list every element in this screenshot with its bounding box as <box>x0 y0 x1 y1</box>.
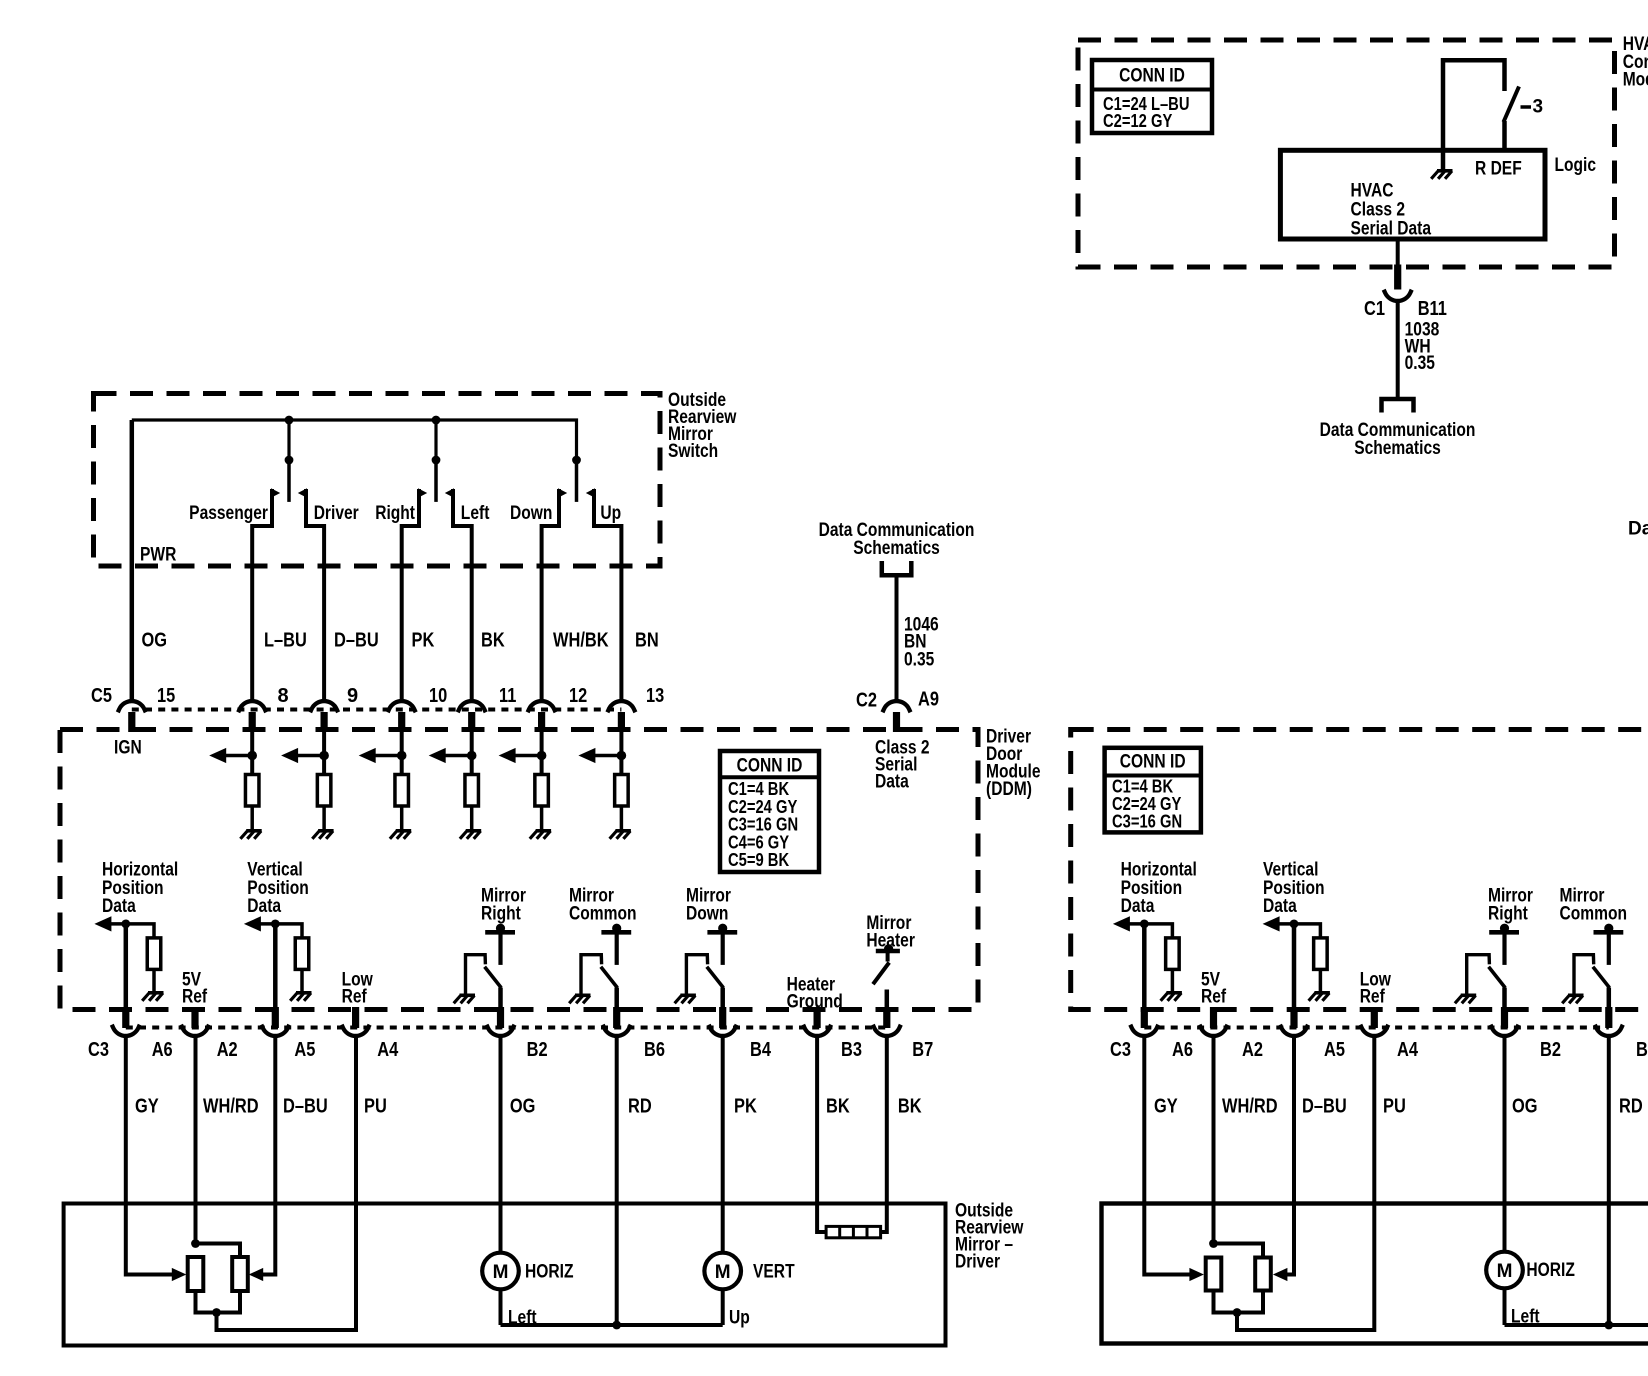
connector pin B2 cup (right) <box>1491 1025 1519 1036</box>
HVAC Control Module dashed box <box>1078 40 1615 267</box>
svg-text:CONN ID: CONN ID <box>737 756 803 777</box>
svg-text:B11: B11 <box>1418 298 1447 320</box>
connector pin A4 cup <box>342 1025 370 1036</box>
pull-down resistor leg at x=471.7 <box>470 731 474 775</box>
HVAC logic box <box>1280 150 1545 239</box>
svg-text:0.35: 0.35 <box>1405 353 1436 374</box>
svg-text:Data: Data <box>875 772 909 793</box>
wire VERT motor to common <box>721 1289 725 1325</box>
svg-text:C3: C3 <box>88 1039 109 1061</box>
wire HORIZ motor to common <box>499 1289 503 1325</box>
power bus wire <box>132 420 577 460</box>
connector pin B6 cup (right) <box>1595 1025 1623 1036</box>
connector pin A6 tick (right) <box>1141 1007 1148 1028</box>
svg-text:(DDM): (DDM) <box>986 779 1032 800</box>
svg-text:Ref: Ref <box>1360 987 1386 1008</box>
Horizontal Position Data branch (DDM) <box>109 922 125 926</box>
svg-text:Driver: Driver <box>955 1252 1000 1273</box>
svg-text:B2: B2 <box>527 1039 548 1061</box>
pot left element <box>188 1257 204 1291</box>
svg-text:R DEF: R DEF <box>1475 158 1522 179</box>
connector pin A6 cup <box>112 1025 140 1036</box>
svg-text:12: 12 <box>569 685 587 707</box>
svg-text:M: M <box>1497 1261 1513 1282</box>
motor M VERT <box>704 1253 741 1290</box>
svg-text:BN: BN <box>635 629 659 651</box>
svg-text:WH/RD: WH/RD <box>203 1095 259 1117</box>
connector pin 10 tick <box>398 712 405 732</box>
connector pin B2 tick <box>497 1007 504 1028</box>
svg-text:Right: Right <box>481 904 521 925</box>
junction dot pot top (right) <box>1209 1239 1218 1248</box>
svg-text:PU: PU <box>1383 1095 1406 1117</box>
junction dot pot bottom <box>212 1308 221 1317</box>
passenger door module dashed box <box>1071 730 1648 1010</box>
svg-text:HORIZ: HORIZ <box>1526 1260 1575 1281</box>
wire OG (IGN feed) <box>130 420 135 699</box>
wire PK B4 to VERT motor <box>721 1037 725 1253</box>
svg-text:Common: Common <box>1560 904 1628 925</box>
svg-text:A6: A6 <box>152 1039 173 1061</box>
connector pin 8 tick <box>249 712 256 732</box>
svg-text:A2: A2 <box>217 1039 238 1061</box>
svg-text:A4: A4 <box>1397 1039 1419 1061</box>
R DEF switch wiring (top bar and legs) <box>1443 60 1505 170</box>
svg-text:Heater: Heater <box>866 931 915 952</box>
svg-text:HORIZ: HORIZ <box>525 1262 574 1283</box>
svg-text:PK: PK <box>412 629 435 651</box>
Mirror Down switch (DDM) <box>707 930 737 935</box>
Outside Rearview Mirror Driver box <box>64 1204 946 1346</box>
svg-text:HVAC: HVAC <box>1351 181 1394 202</box>
connector pin A2 cup <box>181 1025 209 1036</box>
connector pin B4 cup <box>709 1025 737 1036</box>
junction dot bus 1 <box>285 416 294 425</box>
connector pin B3 cup <box>803 1025 831 1036</box>
common return wire (driver mirror) <box>501 1323 723 1327</box>
svg-text:A9: A9 <box>918 689 939 711</box>
svg-text:C5: C5 <box>91 685 112 707</box>
connector pin 11 cup <box>458 701 486 712</box>
connector pin 9 cup <box>310 701 338 712</box>
svg-text:11: 11 <box>499 685 516 707</box>
connector pin B6 tick (right) <box>1605 1007 1612 1028</box>
Horizontal Position Data branch (right) <box>1128 922 1144 926</box>
pull-down resistor leg at x=252.2 <box>250 731 254 775</box>
wire OG B2 to HORIZ motor <box>499 1037 503 1253</box>
R DEF switch lower post <box>1502 121 1507 151</box>
svg-text:Data: Data <box>1121 896 1155 917</box>
svg-text:15: 15 <box>157 685 175 707</box>
svg-text:B6: B6 <box>1636 1039 1648 1061</box>
svg-text:IGN: IGN <box>114 738 142 759</box>
wire HORIZ motor to common (right) <box>1503 1288 1507 1325</box>
common return wire (passenger mirror) <box>1505 1323 1648 1327</box>
wire WH/RD A2 to pot top <box>194 1037 198 1244</box>
svg-text:3: 3 <box>1533 97 1544 118</box>
connector C2/A9 cup <box>883 701 911 712</box>
wire BK B7 to heater element <box>880 1037 887 1232</box>
mirror heater element <box>826 1226 881 1237</box>
svg-text:A5: A5 <box>294 1039 315 1061</box>
dotted connector line (switch to DDM row) <box>132 708 622 712</box>
junction dot bus 2 <box>432 416 441 425</box>
svg-text:RD: RD <box>628 1095 652 1117</box>
svg-text:PK: PK <box>734 1095 757 1117</box>
svg-text:Schematics: Schematics <box>1354 438 1441 459</box>
wire BK B3 to heater element <box>817 1037 827 1232</box>
svg-text:A4: A4 <box>377 1039 399 1061</box>
svg-text:Data: Data <box>102 896 136 917</box>
svg-text:BK: BK <box>898 1095 922 1117</box>
svg-text:PU: PU <box>364 1095 387 1117</box>
wire PU A4 to pot bottom (right) <box>1237 1037 1374 1330</box>
connector pin A6 cup (right) <box>1130 1025 1158 1036</box>
connector pin A5 tick (right) <box>1290 1007 1297 1028</box>
svg-text:C1=4 BK: C1=4 BK <box>728 779 789 799</box>
svg-text:10: 10 <box>429 685 447 707</box>
pot left element (right) <box>1206 1258 1222 1291</box>
svg-text:Schematics: Schematics <box>853 538 940 559</box>
wire GY A6 to pot wiper <box>126 1037 173 1275</box>
connector pin A4 tick <box>352 1007 359 1028</box>
svg-text:D–BU: D–BU <box>283 1095 328 1117</box>
svg-text:Common: Common <box>569 904 637 925</box>
svg-text:Ref: Ref <box>1201 987 1227 1008</box>
pot bottom bar <box>196 1291 241 1313</box>
junction dot pot top <box>191 1239 200 1248</box>
pot wiper arrow left (right) <box>1189 1268 1204 1281</box>
svg-text:A5: A5 <box>1324 1039 1345 1061</box>
pot top bar <box>196 1244 241 1258</box>
connector pin A2 tick <box>191 1007 198 1028</box>
connector pin 9 tick <box>321 712 328 732</box>
connector pin 8 cup <box>238 701 266 712</box>
svg-text:Data: Data <box>1263 896 1297 917</box>
R DEF switch blade <box>1504 87 1520 123</box>
connector pin A6 tick <box>122 1007 129 1028</box>
svg-text:C5=9 BK: C5=9 BK <box>728 850 789 870</box>
connector pin A2 cup (right) <box>1200 1025 1228 1036</box>
connector pin 15 tick <box>128 712 135 732</box>
wire WH/RD A2 to pot top (right) <box>1212 1037 1216 1244</box>
Driver Door Module dashed box <box>60 730 978 1010</box>
svg-text:VERT: VERT <box>753 1262 795 1283</box>
pot top bar (right) <box>1214 1244 1264 1258</box>
wire D-BU A5 to pot wiper right <box>263 1037 276 1275</box>
switch Right/Left pair <box>434 460 438 502</box>
junction dot pot bottom (right) <box>1233 1308 1242 1317</box>
svg-text:Data: Data <box>1628 519 1648 540</box>
svg-text:Class 2: Class 2 <box>1351 200 1406 221</box>
connector pin B7 cup <box>873 1025 901 1036</box>
pull-down resistor leg at x=401.7 <box>400 731 404 775</box>
wire from logic box to C1 connector <box>1396 239 1400 270</box>
pull-down resistor leg at x=541.6 <box>540 731 544 775</box>
svg-text:Right: Right <box>375 503 415 524</box>
svg-text:OG: OG <box>142 629 168 651</box>
off-page bracket to Data Communication Schematics <box>1382 399 1414 413</box>
connector pin A4 cup (right) <box>1360 1025 1388 1036</box>
wire RD B6 to common (right) <box>1607 1037 1611 1325</box>
off-page bracket (middle) <box>882 561 912 575</box>
svg-text:Down: Down <box>686 904 728 925</box>
svg-text:Down: Down <box>510 503 552 524</box>
Vertical Position Data branch (DDM) <box>259 922 275 926</box>
Mirror Common switch (right) <box>1594 930 1624 935</box>
svg-text:Module: Module <box>1623 70 1648 91</box>
connector pin 12 cup <box>528 701 556 712</box>
svg-text:Ref: Ref <box>182 987 208 1008</box>
svg-text:0.35: 0.35 <box>904 649 935 670</box>
switch Passenger/Driver pair <box>287 460 291 502</box>
svg-text:C2=12 GY: C2=12 GY <box>1103 111 1172 131</box>
svg-text:OG: OG <box>510 1095 536 1117</box>
connector pin B3 tick <box>814 1007 821 1028</box>
svg-text:A6: A6 <box>1172 1039 1193 1061</box>
svg-text:Logic: Logic <box>1555 155 1597 176</box>
svg-text:BK: BK <box>826 1095 850 1117</box>
pull-down resistor leg at x=324.1 <box>322 731 326 775</box>
connector pin B6 tick <box>613 1007 620 1028</box>
CONN ID table (DDM) <box>720 751 819 872</box>
connector pin B7 tick <box>883 1007 890 1028</box>
junction dot pole 2 <box>432 456 441 465</box>
Mirror Common switch (DDM) <box>601 930 631 935</box>
motor M HORIZ (passenger) <box>1486 1252 1523 1289</box>
svg-text:Up: Up <box>600 503 621 524</box>
pot right element <box>232 1257 248 1291</box>
connector pin 13 cup <box>607 701 635 712</box>
junction dot pole 1 <box>285 456 294 465</box>
svg-text:B3: B3 <box>841 1039 862 1061</box>
svg-text:GY: GY <box>1154 1095 1178 1117</box>
pot bottom bar (right) <box>1214 1291 1264 1313</box>
Vertical Position Data branch (right) <box>1278 922 1294 926</box>
CONN ID table (HVAC C1=24 L-BU C2=12 GY) <box>1092 60 1212 133</box>
Outside Rearview Mirror passenger box <box>1102 1204 1648 1344</box>
svg-text:B7: B7 <box>912 1039 933 1061</box>
svg-text:L–BU: L–BU <box>264 629 307 651</box>
svg-text:GY: GY <box>135 1095 159 1117</box>
wire PU A4 to pot bottom <box>217 1037 357 1330</box>
connector pin A2 tick (right) <box>1210 1007 1217 1028</box>
connector pin B2 cup <box>487 1025 515 1036</box>
svg-text:C3: C3 <box>1110 1039 1131 1061</box>
svg-text:C2: C2 <box>856 690 877 712</box>
Mirror Right switch (DDM) <box>485 930 515 935</box>
wire GY A6 to pot wiper (right) <box>1144 1037 1190 1275</box>
connector pin B2 tick (right) <box>1501 1007 1508 1028</box>
svg-text:13: 13 <box>646 685 664 707</box>
wire OG B2 to HORIZ motor (right) <box>1503 1037 1507 1252</box>
svg-text:BK: BK <box>481 629 505 651</box>
pot right element (right) <box>1255 1258 1271 1291</box>
connector C2/A9 tick <box>893 712 900 732</box>
connector pin A4 tick (right) <box>1371 1007 1378 1028</box>
svg-text:Driver: Driver <box>314 503 359 524</box>
connector pin A5 cup (right) <box>1280 1025 1308 1036</box>
wire RD B6 to common <box>615 1037 619 1325</box>
pot wiper arrow left <box>172 1268 187 1281</box>
svg-text:Passenger: Passenger <box>189 503 268 524</box>
dotted connector line (right module bottom row) <box>1144 1026 1609 1030</box>
svg-text:CONN ID: CONN ID <box>1120 752 1186 773</box>
svg-text:PWR: PWR <box>140 545 177 566</box>
svg-text:Right: Right <box>1488 904 1528 925</box>
switch stub 1 <box>287 420 290 460</box>
connector pin B6 cup <box>603 1025 631 1036</box>
switch Down/Up pair <box>575 460 579 502</box>
svg-text:B6: B6 <box>644 1039 665 1061</box>
motor M HORIZ (driver) <box>482 1253 519 1290</box>
connector pin A5 tick <box>272 1007 279 1028</box>
wire 1038 WH 0.35 <box>1396 303 1400 398</box>
svg-text:Data: Data <box>247 896 281 917</box>
wire D-BU A5 to pot wiper (right) <box>1287 1037 1295 1275</box>
connector C1/B11 cup <box>1384 290 1412 301</box>
connector pin 13 tick <box>618 712 625 732</box>
pot wiper arrow right (right) <box>1273 1268 1288 1281</box>
Outside Rearview Mirror Switch dashed box <box>94 394 661 567</box>
connector pin B4 tick <box>719 1007 726 1028</box>
svg-text:8: 8 <box>278 685 289 707</box>
connector pin 10 cup <box>388 701 416 712</box>
pin tick C1 <box>1394 265 1401 290</box>
switch stub 2 <box>434 420 437 460</box>
connector pin 15 cup <box>118 701 146 712</box>
svg-text:Serial Data: Serial Data <box>1351 219 1432 240</box>
svg-text:Up: Up <box>729 1308 750 1329</box>
svg-text:B2: B2 <box>1540 1039 1561 1061</box>
dotted connector line (DDM bottom row) <box>126 1026 887 1030</box>
Mirror Right switch (right) <box>1489 930 1519 935</box>
switch actuator mark -3 <box>1521 105 1532 109</box>
svg-text:9: 9 <box>347 685 358 707</box>
svg-text:M: M <box>715 1262 731 1283</box>
junction dot RD common <box>612 1321 621 1330</box>
svg-text:WH/RD: WH/RD <box>1222 1095 1278 1117</box>
pot wiper arrow right <box>249 1268 264 1281</box>
svg-text:B4: B4 <box>750 1039 772 1061</box>
svg-text:C3=16 GN: C3=16 GN <box>1112 812 1182 832</box>
svg-text:CONN ID: CONN ID <box>1119 66 1185 87</box>
svg-text:D–BU: D–BU <box>1302 1095 1347 1117</box>
svg-text:Switch: Switch <box>668 441 718 462</box>
wire 1046 BN 0.35 <box>895 575 899 701</box>
ground inside logic box (R DEF leg) <box>1437 169 1453 173</box>
connector pin A5 cup <box>261 1025 289 1036</box>
svg-text:D–BU: D–BU <box>334 629 379 651</box>
CONN ID table (right module) <box>1105 748 1201 833</box>
svg-text:RD: RD <box>1619 1095 1643 1117</box>
svg-text:Left: Left <box>461 503 490 524</box>
Mirror Heater switch <box>876 949 900 953</box>
svg-text:WH/BK: WH/BK <box>553 629 609 651</box>
svg-text:C1: C1 <box>1364 298 1385 320</box>
connector pin 12 tick <box>538 712 545 732</box>
svg-text:M: M <box>493 1262 509 1283</box>
connector pin 11 tick <box>468 712 475 732</box>
svg-text:Ref: Ref <box>342 987 368 1008</box>
svg-text:A2: A2 <box>1242 1039 1263 1061</box>
pull-down resistor leg at x=621.4 <box>619 731 623 775</box>
svg-text:OG: OG <box>1512 1095 1538 1117</box>
junction dot RD common (right) <box>1604 1321 1613 1330</box>
junction dot pole 3 <box>572 456 581 465</box>
